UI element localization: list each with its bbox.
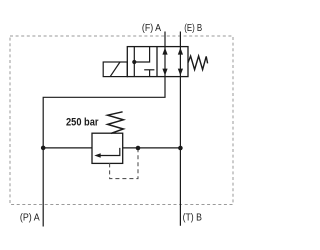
wire E/T line: from (E)B straight down through valve and node to (T)B [179,32,181,226]
valve left position junction dot [132,60,136,64]
relief valve internal flow path with arrow [99,148,120,156]
relief valve RV1 body [92,133,123,163]
wire F/P line: from (F)A down through valve, below valve, left and down to (P)A [43,32,165,227]
node on T line [178,146,183,151]
node pilot/relief junction [136,146,141,151]
solenoid actuator of valve V1 [103,62,127,77]
valve V1 body (4/2 directional valve, two position squares) [127,47,188,77]
svg-text:(T) B: (T) B [183,212,202,224]
pilot line (dashed) from relief valve bottom to node on E/T line [110,150,138,179]
svg-text:(F) A: (F) A [142,22,161,34]
valve left position: straight path with branch [133,47,135,77]
wire relief right segment [123,147,181,149]
wire relief left segment [43,147,92,149]
svg-text:250 bar: 250 bar [66,117,99,129]
relief valve spring [108,112,124,134]
valve right position flow arrow 1 (bidirectional) [162,48,167,55]
node on P line [41,146,46,151]
valve left position branch to second top port [134,47,149,62]
valve right position flow arrow 2 (bidirectional) [178,48,183,55]
svg-text:(E) B: (E) B [184,22,202,34]
valve left position blocked port T [149,70,151,77]
enclosure (manifold boundary, dashed) [10,36,233,205]
svg-text:(P) A: (P) A [20,211,40,223]
return spring of valve V1 [188,56,208,70]
